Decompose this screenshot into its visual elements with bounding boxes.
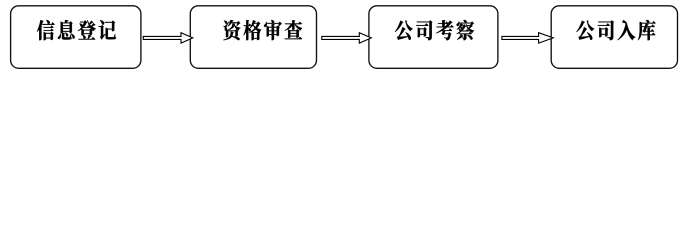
process box 4: 公司入库 (551, 6, 677, 69)
flow arrow 3: 公司考察→公司入库 (502, 33, 553, 43)
flow arrow 2: 资格审查→公司考察 (322, 33, 372, 43)
process box 3: 公司考察 (369, 6, 498, 69)
process box 1: 信息登记 (11, 6, 141, 69)
label text: 公司考察 (395, 20, 474, 40)
label text: 资格审查 (223, 20, 302, 40)
flow arrow 1: 信息登记→资格审查 (143, 33, 193, 43)
label text: 公司入库 (576, 20, 655, 40)
label text: 信息登记 (37, 20, 116, 40)
flowchart: 信息登记 → 资格审查 → 公司考察 → 公司入库 (0, 0, 691, 88)
process box 2: 资格审查 (190, 6, 316, 69)
